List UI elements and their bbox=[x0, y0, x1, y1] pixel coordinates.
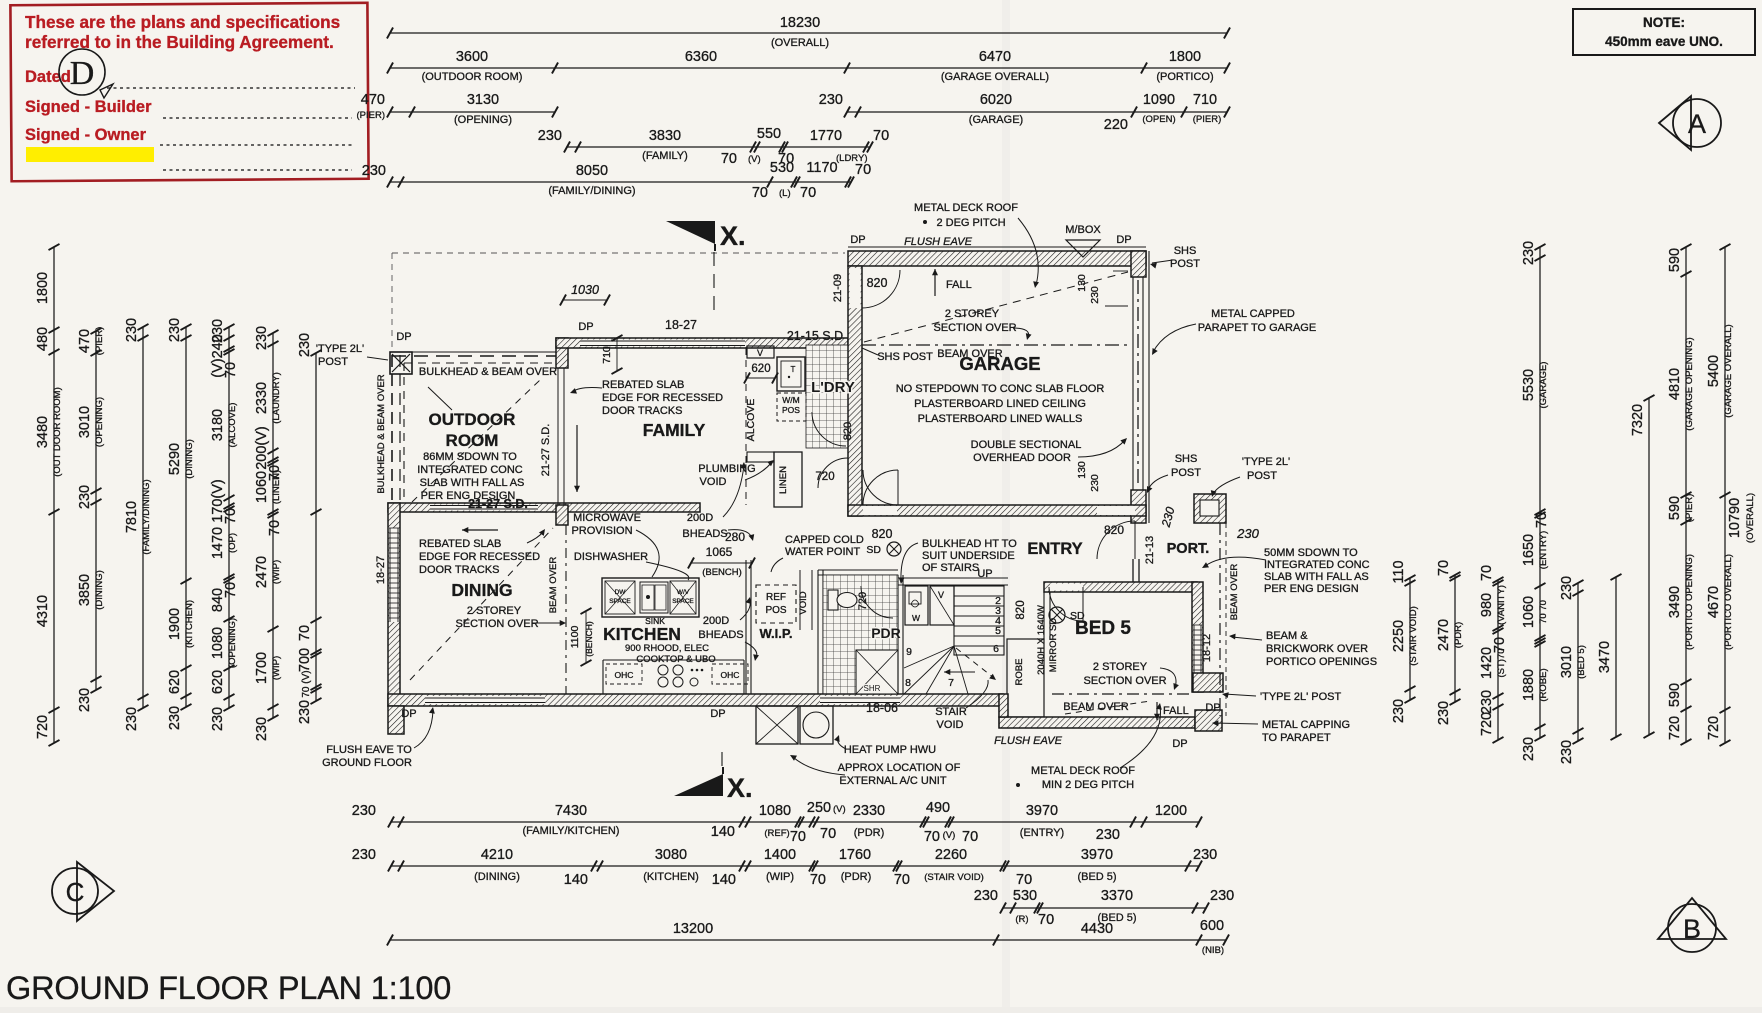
svg-text:BHEADS: BHEADS bbox=[682, 528, 727, 540]
beam over dashed line dining/kitchen bbox=[565, 525, 567, 694]
svg-text:(ST)70: (ST)70 bbox=[1496, 648, 1507, 677]
svg-text:1800: 1800 bbox=[35, 272, 51, 304]
svg-text:BULKHEAD & BEAM OVER: BULKHEAD & BEAM OVER bbox=[376, 374, 387, 493]
svg-text:2 DEG PITCH: 2 DEG PITCH bbox=[936, 217, 1005, 229]
plumbing void wall bbox=[747, 452, 774, 462]
svg-text:230: 230 bbox=[1559, 740, 1575, 764]
wall bottom-left step bbox=[388, 706, 404, 734]
svg-text:820: 820 bbox=[872, 527, 893, 541]
section line X-X top bbox=[713, 252, 715, 312]
section marker B bbox=[1658, 898, 1726, 939]
svg-text:D: D bbox=[70, 55, 95, 92]
bench 1065 dim bbox=[691, 562, 752, 564]
svg-text:BEAM OVER: BEAM OVER bbox=[1063, 701, 1128, 713]
svg-text:230: 230 bbox=[819, 92, 843, 108]
svg-text:DOUBLE SECTIONAL: DOUBLE SECTIONAL bbox=[971, 439, 1082, 451]
svg-text:220: 220 bbox=[1104, 117, 1128, 133]
svg-text:4430: 4430 bbox=[1081, 921, 1113, 937]
svg-text:50MM SDOWN TO: 50MM SDOWN TO bbox=[1264, 547, 1358, 559]
svg-text:230: 230 bbox=[1436, 701, 1452, 725]
svg-text:(OVERALL): (OVERALL) bbox=[771, 37, 829, 49]
svg-text:620: 620 bbox=[751, 363, 770, 375]
dim col right stair-void (110/2250/230) bbox=[1409, 578, 1411, 700]
kitchen OHC boxes dashed bbox=[606, 664, 642, 684]
svg-text:BEAM &: BEAM & bbox=[1266, 630, 1308, 642]
svg-text:(OPENING): (OPENING) bbox=[227, 618, 238, 668]
svg-text:BEAM OVER: BEAM OVER bbox=[548, 557, 559, 614]
dim col left 3 (230/7810/230) bbox=[142, 327, 144, 708]
wall laundry/linen block bbox=[745, 348, 747, 505]
svg-text:200(V): 200(V) bbox=[254, 426, 270, 470]
svg-text:(GARAGE OVERALL): (GARAGE OVERALL) bbox=[1723, 324, 1734, 417]
svg-text:720: 720 bbox=[857, 592, 869, 610]
garage roof dashed diagonal bbox=[864, 272, 1128, 342]
svg-text:1065: 1065 bbox=[706, 545, 733, 559]
svg-text:(LINEN): (LINEN) bbox=[271, 470, 282, 504]
kitchen wv space box bbox=[670, 581, 696, 614]
svg-text:230: 230 bbox=[297, 700, 313, 724]
svg-text:Dated: Dated bbox=[25, 68, 71, 86]
svg-text:1760: 1760 bbox=[839, 847, 871, 863]
svg-text:620: 620 bbox=[210, 670, 226, 694]
dim col right pdr (70/2470/230) bbox=[1454, 575, 1456, 702]
svg-text:18230: 18230 bbox=[780, 15, 820, 31]
svg-text:BULKHEAD & BEAM OVER: BULKHEAD & BEAM OVER bbox=[419, 366, 557, 378]
svg-text:OF STAIRS: OF STAIRS bbox=[922, 562, 979, 574]
dim col right 3470 bbox=[1615, 577, 1617, 737]
svg-text:470: 470 bbox=[77, 329, 93, 353]
svg-text:21-27 S.D.: 21-27 S.D. bbox=[540, 424, 552, 477]
svg-text:70: 70 bbox=[800, 185, 816, 201]
red agreement box bbox=[10, 3, 368, 181]
svg-text:FALL: FALL bbox=[946, 279, 972, 291]
svg-text:LINEN: LINEN bbox=[778, 466, 789, 494]
svg-text:2260: 2260 bbox=[935, 847, 967, 863]
dotted signature line - owner bbox=[160, 144, 352, 146]
svg-text:3180: 3180 bbox=[210, 409, 226, 441]
bed5 fall arrow bbox=[1156, 702, 1158, 720]
svg-text:KITCHEN: KITCHEN bbox=[603, 624, 681, 644]
dim 620 laundry bbox=[747, 377, 775, 379]
wall outdoor room left (dashed open wall) bbox=[391, 355, 393, 505]
svg-text:Signed - Builder: Signed - Builder bbox=[25, 98, 152, 116]
svg-text:3130: 3130 bbox=[467, 92, 499, 108]
svg-text:(GARAGE): (GARAGE) bbox=[1538, 362, 1549, 409]
dim chain top row3 470/3130 opening bbox=[390, 111, 555, 113]
svg-text:'TYPE 2L' POST: 'TYPE 2L' POST bbox=[1260, 691, 1342, 703]
svg-text:1060: 1060 bbox=[1521, 596, 1537, 628]
svg-text:1060: 1060 bbox=[254, 471, 270, 503]
svg-text:70: 70 bbox=[790, 829, 806, 845]
svg-text:2330: 2330 bbox=[853, 803, 885, 819]
svg-text:X.: X. bbox=[720, 221, 746, 251]
svg-text:620: 620 bbox=[167, 670, 183, 694]
svg-text:70: 70 bbox=[223, 362, 239, 378]
svg-text:'TYPE 2L': 'TYPE 2L' bbox=[1242, 456, 1290, 468]
wall garage right / door opening bbox=[1131, 251, 1146, 277]
dim col right 7320 bbox=[1648, 398, 1650, 735]
svg-text:(WIP): (WIP) bbox=[766, 871, 794, 883]
svg-text:(REF): (REF) bbox=[764, 828, 789, 839]
label 1030 dim bbox=[563, 299, 607, 301]
svg-text:230: 230 bbox=[1479, 690, 1495, 714]
svg-text:5290: 5290 bbox=[167, 443, 183, 475]
svg-text:820: 820 bbox=[842, 422, 854, 440]
vanity box V top bbox=[747, 346, 774, 358]
svg-text:EDGE FOR RECESSED: EDGE FOR RECESSED bbox=[419, 551, 540, 563]
svg-text:3600: 3600 bbox=[456, 49, 488, 65]
kitchen bottom bench bbox=[603, 659, 744, 661]
svg-text:INTEGRATED CONC: INTEGRATED CONC bbox=[1264, 559, 1370, 571]
svg-text:PER ENG DESIGN: PER ENG DESIGN bbox=[1264, 583, 1359, 595]
svg-text:(FAMILY/DINING): (FAMILY/DINING) bbox=[141, 479, 152, 554]
svg-text:550: 550 bbox=[757, 126, 781, 142]
svg-text:DP: DP bbox=[850, 234, 865, 246]
svg-text:70: 70 bbox=[855, 162, 871, 178]
svg-text:6020: 6020 bbox=[980, 92, 1012, 108]
wall outdoor room / dining bottom (hatched) bbox=[388, 503, 700, 512]
stair winders bbox=[904, 646, 954, 694]
svg-text:SHS POST: SHS POST bbox=[877, 351, 933, 363]
svg-text:SECTION OVER: SECTION OVER bbox=[455, 618, 538, 630]
robe box bbox=[1007, 639, 1044, 717]
svg-text:70: 70 bbox=[1479, 565, 1495, 581]
svg-text:18-12: 18-12 bbox=[1201, 634, 1213, 662]
svg-text:3490: 3490 bbox=[1667, 586, 1683, 618]
svg-text:7320: 7320 bbox=[1630, 404, 1646, 436]
svg-text:APPROX LOCATION OF: APPROX LOCATION OF bbox=[838, 762, 961, 774]
svg-text:4210: 4210 bbox=[481, 847, 513, 863]
svg-text:2 STOREY: 2 STOREY bbox=[467, 605, 522, 617]
wall garage top (hatched) bbox=[848, 251, 1146, 266]
svg-text:W/M: W/M bbox=[782, 395, 799, 405]
svg-text:2470: 2470 bbox=[254, 556, 270, 588]
svg-text:70: 70 bbox=[1016, 872, 1032, 888]
svg-text:NO STEPDOWN TO CONC SLAB FLOOR: NO STEPDOWN TO CONC SLAB FLOOR bbox=[896, 383, 1105, 395]
svg-text:230: 230 bbox=[77, 485, 93, 509]
svg-text:3010: 3010 bbox=[1559, 646, 1575, 678]
svg-text:70: 70 bbox=[820, 826, 836, 842]
svg-text:BEAM OVER: BEAM OVER bbox=[1229, 564, 1240, 621]
svg-text:POST: POST bbox=[1247, 470, 1277, 482]
svg-text:(OUTDOOR ROOM): (OUTDOOR ROOM) bbox=[422, 71, 523, 83]
svg-text:140: 140 bbox=[712, 872, 736, 888]
svg-text:B: B bbox=[1683, 914, 1701, 944]
entry side door 820 arc bbox=[863, 470, 898, 505]
svg-text:These are the plans and specif: These are the plans and specifications bbox=[25, 12, 340, 32]
portico right dash outline bbox=[1225, 523, 1227, 716]
svg-text:DISHWASHER: DISHWASHER bbox=[574, 551, 648, 563]
svg-text:1200: 1200 bbox=[1155, 803, 1187, 819]
svg-text:4310: 4310 bbox=[35, 595, 51, 627]
svg-text:(V): (V) bbox=[833, 804, 846, 815]
svg-text:BULKHEAD HT TO: BULKHEAD HT TO bbox=[922, 538, 1017, 550]
svg-text:VOID: VOID bbox=[937, 719, 964, 731]
svg-text:METAL DECK ROOF: METAL DECK ROOF bbox=[1031, 765, 1135, 777]
section marker C bbox=[77, 862, 114, 921]
svg-text:720: 720 bbox=[1706, 716, 1722, 740]
svg-text:(PDR): (PDR) bbox=[1453, 622, 1464, 648]
stairs treads bbox=[954, 586, 1004, 655]
svg-text:700: 700 bbox=[297, 648, 313, 672]
svg-text:70: 70 bbox=[752, 185, 768, 201]
svg-text:POS: POS bbox=[765, 605, 786, 616]
svg-text:(OUT DOOR ROOM): (OUT DOOR ROOM) bbox=[52, 387, 63, 477]
svg-text:720: 720 bbox=[1667, 716, 1683, 740]
svg-text:FLUSH EAVE: FLUSH EAVE bbox=[994, 735, 1063, 747]
garage parapet outer line bbox=[1148, 251, 1150, 523]
svg-text:SHS: SHS bbox=[1174, 245, 1197, 257]
svg-text:X.: X. bbox=[727, 773, 753, 803]
dim chain bottom row3 230/530/3370/230 bbox=[1003, 907, 1206, 909]
svg-text:referred to in the Building Ag: referred to in the Building Agreement. bbox=[25, 32, 334, 52]
dim chain top row3 230/6020 garage/220/1090/710 bbox=[847, 111, 1227, 113]
dim col right garage opening (590/4810/590/3490/590/720) bbox=[1685, 247, 1687, 742]
svg-text:3970: 3970 bbox=[1026, 803, 1058, 819]
door 820 garage to entry bbox=[863, 506, 897, 515]
svg-text:(FAMILY): (FAMILY) bbox=[642, 150, 688, 162]
svg-text:4670: 4670 bbox=[1706, 586, 1722, 618]
portico ne pier bbox=[1194, 494, 1226, 523]
svg-text:(PIER): (PIER) bbox=[357, 110, 386, 121]
svg-text:21-27 S.D.: 21-27 S.D. bbox=[468, 497, 528, 511]
wall below front door bbox=[1132, 559, 1134, 582]
stamp circle D bbox=[59, 49, 105, 95]
svg-text:980: 980 bbox=[1479, 593, 1495, 617]
svg-text:(PIER): (PIER) bbox=[1193, 114, 1222, 125]
svg-text:DP: DP bbox=[1205, 702, 1220, 714]
svg-text:OUTDOOR: OUTDOOR bbox=[429, 410, 516, 429]
opening arrow dining bbox=[462, 529, 498, 531]
svg-text:DOOR TRACKS: DOOR TRACKS bbox=[419, 564, 499, 576]
svg-text:530: 530 bbox=[770, 160, 794, 176]
svg-text:1700: 1700 bbox=[254, 652, 270, 684]
svg-text:SUIT UNDERSIDE: SUIT UNDERSIDE bbox=[922, 550, 1015, 562]
svg-text:110: 110 bbox=[1391, 560, 1407, 583]
svg-text:SPACE: SPACE bbox=[609, 598, 631, 605]
stair direction arrow bbox=[944, 671, 975, 673]
stair closet V bbox=[930, 586, 954, 625]
wall bed5 right (hatched) bbox=[1192, 582, 1203, 692]
svg-text:PLUMBING: PLUMBING bbox=[698, 463, 755, 475]
svg-text:(ALCOVE): (ALCOVE) bbox=[227, 403, 238, 448]
svg-text:GROUND FLOOR: GROUND FLOOR bbox=[322, 757, 412, 769]
kitchen dw space box bbox=[605, 581, 635, 614]
svg-text:230: 230 bbox=[297, 333, 313, 357]
dotted signature line - builder bbox=[163, 117, 352, 119]
svg-text:DP: DP bbox=[1116, 234, 1131, 246]
svg-text:WATER POINT: WATER POINT bbox=[785, 546, 860, 558]
svg-text:13200: 13200 bbox=[673, 921, 713, 937]
cooktop burners bbox=[658, 665, 668, 675]
svg-text:280: 280 bbox=[725, 530, 745, 544]
svg-text:7: 7 bbox=[948, 677, 954, 689]
svg-text:(BENCH): (BENCH) bbox=[702, 567, 742, 578]
svg-text:86MM SDOWN TO: 86MM SDOWN TO bbox=[423, 451, 517, 463]
wall outdoor room top (dashed bulkhead) bbox=[392, 355, 556, 357]
svg-text:SD: SD bbox=[1070, 610, 1085, 622]
section marker A bbox=[1659, 96, 1691, 150]
note box bbox=[1573, 9, 1755, 55]
svg-text:SHR: SHR bbox=[864, 684, 881, 693]
wall garage left (hatched) bbox=[848, 266, 862, 516]
svg-text:OHC: OHC bbox=[615, 670, 634, 680]
svg-text:(STAIR VOID): (STAIR VOID) bbox=[924, 872, 983, 883]
svg-text:490: 490 bbox=[926, 800, 950, 816]
svg-text:MIRROR SD: MIRROR SD bbox=[1048, 618, 1059, 673]
svg-text:2330: 2330 bbox=[254, 382, 270, 414]
svg-text:SLAB WITH FALL AS: SLAB WITH FALL AS bbox=[420, 477, 525, 489]
svg-text:10790: 10790 bbox=[1727, 498, 1743, 538]
svg-text:2250: 2250 bbox=[1391, 620, 1407, 652]
svg-text:6470: 6470 bbox=[979, 49, 1011, 65]
svg-text:2470: 2470 bbox=[1436, 619, 1452, 651]
svg-text:70: 70 bbox=[894, 872, 910, 888]
pdr toilet bbox=[828, 590, 838, 610]
svg-text:8: 8 bbox=[905, 677, 911, 689]
wall family left (sliding door 21-27) bbox=[556, 338, 568, 368]
svg-text:230: 230 bbox=[1089, 474, 1101, 492]
svg-text:VOID: VOID bbox=[700, 476, 727, 488]
svg-text:230: 230 bbox=[254, 326, 270, 350]
stair void dashed diagonal bbox=[956, 648, 994, 678]
svg-text:3080: 3080 bbox=[655, 847, 687, 863]
svg-text:2040H X 1640W: 2040H X 1640W bbox=[1036, 605, 1047, 675]
svg-text:METAL CAPPING: METAL CAPPING bbox=[1262, 719, 1350, 731]
door bed5 820 bbox=[1049, 587, 1083, 621]
svg-text:DP: DP bbox=[401, 708, 416, 720]
svg-text:PORT.: PORT. bbox=[1167, 541, 1210, 557]
svg-text:9: 9 bbox=[906, 646, 912, 658]
svg-text:(STAIR VOID): (STAIR VOID) bbox=[1408, 606, 1419, 665]
label 1100 bench rotated bbox=[585, 611, 587, 663]
svg-text:1420: 1420 bbox=[1479, 647, 1495, 679]
svg-text:140: 140 bbox=[564, 872, 588, 888]
svg-text:PARAPET TO GARAGE: PARAPET TO GARAGE bbox=[1198, 322, 1316, 334]
svg-text:230: 230 bbox=[1521, 737, 1537, 761]
svg-text:A: A bbox=[1688, 109, 1706, 139]
outdoor room inner dashed bulkhead lines bbox=[404, 362, 552, 364]
svg-text:DP: DP bbox=[1172, 738, 1187, 750]
svg-text:(PIER): (PIER) bbox=[1684, 494, 1695, 523]
svg-text:(WIP): (WIP) bbox=[271, 656, 282, 680]
svg-text:230: 230 bbox=[210, 707, 226, 731]
svg-text:710: 710 bbox=[601, 346, 613, 364]
svg-text:5530: 5530 bbox=[1521, 369, 1537, 401]
dim col left 1 (1800/480/3480/4310/720) bbox=[53, 247, 55, 743]
svg-text:(GARAGE OVERALL): (GARAGE OVERALL) bbox=[941, 71, 1049, 83]
svg-text:(PDR): (PDR) bbox=[854, 827, 885, 839]
svg-text:200D: 200D bbox=[703, 615, 729, 627]
bed5 roof dashed diagonal bbox=[1065, 701, 1150, 714]
dim col left 4 (230/5290/1900/620/230) bbox=[185, 327, 187, 707]
svg-text:(V): (V) bbox=[748, 154, 761, 165]
dim col left 5 (230/240/70/3180/170/70/1470/70/840/1080/620/230) bbox=[228, 327, 230, 708]
svg-text:18-27: 18-27 bbox=[665, 318, 697, 332]
svg-text:ENTRY: ENTRY bbox=[1027, 540, 1082, 558]
dim chain top row4 230/3830 family/550/1770 ldry bbox=[567, 146, 870, 148]
dim col left 6 (230/2330/200/70/1060/70/2470/1700/230) bbox=[272, 333, 274, 718]
svg-text:(FAMILY/DINING): (FAMILY/DINING) bbox=[548, 185, 635, 197]
svg-text:21-15 S.D: 21-15 S.D bbox=[787, 329, 843, 343]
svg-text:820: 820 bbox=[1015, 600, 1027, 619]
wall wip left bbox=[745, 560, 747, 694]
svg-text:450mm eave UNO.: 450mm eave UNO. bbox=[1605, 34, 1723, 49]
svg-text:SPACE: SPACE bbox=[672, 598, 694, 605]
svg-text:230: 230 bbox=[1521, 241, 1537, 265]
svg-text:1470: 1470 bbox=[210, 527, 226, 559]
laundry door 820 bbox=[812, 412, 846, 446]
svg-text:1770: 1770 bbox=[810, 128, 842, 144]
svg-text:SECTION OVER: SECTION OVER bbox=[933, 322, 1016, 334]
svg-text:(PORTICO): (PORTICO) bbox=[1156, 71, 1213, 83]
wall pdr top bbox=[818, 569, 898, 571]
svg-text:230: 230 bbox=[1210, 888, 1234, 904]
svg-text:70: 70 bbox=[924, 829, 940, 845]
svg-text:(OPEN): (OPEN) bbox=[1142, 114, 1175, 125]
svg-text:OVERHEAD DOOR: OVERHEAD DOOR bbox=[973, 452, 1071, 464]
svg-text:(KITCHEN): (KITCHEN) bbox=[643, 871, 699, 883]
svg-text:(DINING): (DINING) bbox=[94, 570, 105, 610]
svg-text:PORTICO OPENINGS: PORTICO OPENINGS bbox=[1266, 656, 1377, 668]
laundry tile floor bbox=[806, 345, 848, 448]
svg-text:PROVISION: PROVISION bbox=[571, 525, 632, 537]
svg-text:820: 820 bbox=[867, 276, 888, 290]
svg-text:230: 230 bbox=[124, 707, 140, 731]
svg-text:DP: DP bbox=[578, 321, 593, 333]
laundry tub bbox=[777, 357, 805, 391]
svg-text:70: 70 bbox=[1436, 560, 1452, 576]
svg-text:(GARAGE): (GARAGE) bbox=[969, 114, 1023, 126]
svg-text:250: 250 bbox=[807, 800, 831, 816]
post type 2L top-left corner bbox=[390, 352, 412, 374]
svg-text:W.I.P.: W.I.P. bbox=[760, 626, 793, 641]
garage sectional door dash line bbox=[1137, 280, 1139, 487]
svg-text:70: 70 bbox=[1038, 912, 1054, 928]
svg-text:(ENTRY): (ENTRY) bbox=[1538, 531, 1549, 569]
svg-text:530: 530 bbox=[1013, 888, 1037, 904]
svg-text:(ENTRY): (ENTRY) bbox=[1020, 827, 1064, 839]
window 18-27 in left wall (ladder) bbox=[389, 528, 399, 622]
svg-text:3830: 3830 bbox=[649, 128, 681, 144]
svg-text:710: 710 bbox=[1193, 92, 1217, 108]
svg-text:POS: POS bbox=[782, 405, 800, 415]
svg-text:SD: SD bbox=[866, 544, 881, 556]
svg-text:(DINING): (DINING) bbox=[184, 439, 195, 479]
svg-text:BHEADS: BHEADS bbox=[698, 629, 743, 641]
entry front door 820 bbox=[1097, 506, 1135, 515]
svg-text:(L): (L) bbox=[779, 188, 791, 199]
svg-text:FALL: FALL bbox=[1163, 705, 1189, 717]
svg-text:3010: 3010 bbox=[77, 406, 93, 438]
svg-text:1800: 1800 bbox=[1169, 49, 1201, 65]
svg-text:140: 140 bbox=[711, 824, 735, 840]
svg-text:230: 230 bbox=[124, 318, 140, 342]
wall garage bottom (hatched) bbox=[848, 505, 1146, 516]
svg-text:MICROWAVE: MICROWAVE bbox=[573, 512, 641, 524]
svg-text:230: 230 bbox=[352, 803, 376, 819]
stair void leader bbox=[966, 680, 988, 708]
svg-text:(LAUNDRY): (LAUNDRY) bbox=[271, 372, 282, 424]
svg-text:(OPENING): (OPENING) bbox=[454, 114, 512, 126]
svg-text:PDR: PDR bbox=[871, 625, 901, 641]
svg-text:FAMILY: FAMILY bbox=[643, 420, 706, 440]
svg-text:1650: 1650 bbox=[1521, 534, 1537, 566]
svg-text:70: 70 bbox=[267, 520, 283, 536]
dim chain bottom row2 230/4210/140/3080/140/1400/1760/2260/3970/230 bbox=[391, 865, 1199, 867]
svg-text:70: 70 bbox=[297, 625, 313, 641]
svg-text:230: 230 bbox=[974, 888, 998, 904]
